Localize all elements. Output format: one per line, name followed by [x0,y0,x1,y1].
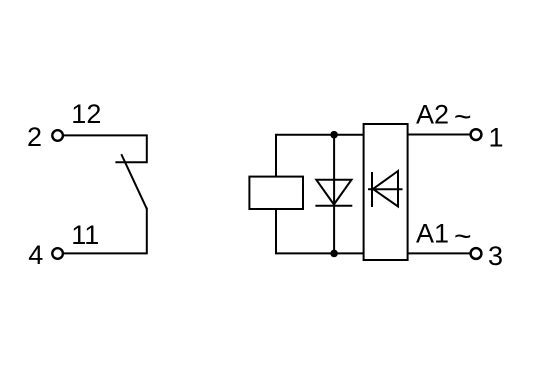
contact blade 11-12 [121,154,147,209]
svg-text:A1~: A1~ [416,218,472,253]
wire top rail to module box [334,134,364,136]
rectifier diode triangle [373,171,398,207]
terminal 4 circle [52,248,63,259]
module box outline [364,124,408,260]
wire module box to terminal 1 [408,134,470,136]
svg-text:4: 4 [28,240,43,270]
wire bottom rail to module box [334,252,364,254]
terminal 1 circle [471,129,482,140]
wire blade pivot to terminal 4 [64,208,147,254]
svg-text:11: 11 [71,220,99,250]
svg-text:3: 3 [488,241,503,271]
terminal 2 circle [52,130,63,141]
wire module box to terminal 3 [408,252,470,254]
svg-text:A2~: A2~ [416,99,472,133]
wire node A1 bottom rail [276,209,334,253]
junction dot top node [330,131,338,139]
junction dot bottom node [330,250,338,258]
diode V1 freewheeling triangle [316,180,351,205]
terminal 3 circle [471,248,482,259]
rectifier diode wire [368,188,403,190]
svg-text:2: 2 [27,122,42,152]
rectifier diode cathode bar [371,172,373,207]
wire diode branch [333,135,335,254]
wire node A2 top rail [276,135,334,177]
svg-text:1: 1 [489,123,504,153]
diode V1 cathode bar [315,205,352,207]
svg-text:12: 12 [71,99,101,129]
relay coil K1 [249,177,303,209]
wire terminal 2 to fixed contact [64,135,147,162]
